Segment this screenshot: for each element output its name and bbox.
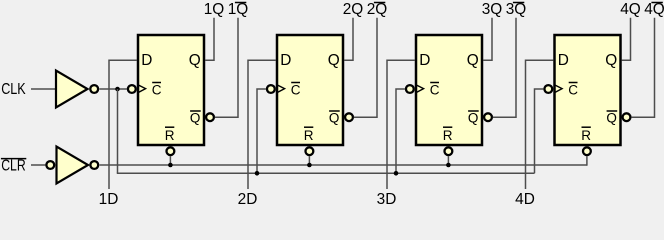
svg-text:3Q: 3Q: [482, 1, 503, 18]
svg-text:R: R: [165, 128, 175, 143]
wire FF1 reset to CLR bus: [169, 156, 171, 166]
FF2 clock edge-trigger symbol: [277, 85, 285, 93]
wire U1 output to FF1 clock: [99, 88, 127, 90]
wire FF2 reset to CLR bus: [308, 156, 310, 166]
D flip-flop FF1 body: [138, 35, 204, 145]
D flip-flop FF2 body: [277, 35, 343, 145]
wire 4D input riser: [526, 60, 554, 189]
inverter U1 (CLK buffer): [56, 71, 98, 108]
wire 3D input riser: [387, 60, 415, 189]
FF4 clock edge-trigger symbol: [554, 85, 562, 93]
svg-text:2Q: 2Q: [367, 1, 388, 18]
svg-text:2D: 2D: [238, 191, 258, 204]
wire FF3 Q-bar output to 3Q-bar: [493, 18, 516, 117]
wire CLK vertical drop: [117, 89, 119, 173]
svg-text:Q: Q: [467, 52, 479, 69]
FF1 clock edge-trigger symbol: [138, 85, 146, 93]
wire FF4 Q output to 4Q: [622, 18, 631, 61]
wire FF2 Q output to 2Q: [344, 18, 353, 61]
junction CLR bus at FF1: [168, 163, 173, 168]
wire FF2 Q-bar output to 2Q-bar: [354, 18, 377, 117]
svg-text:3Q: 3Q: [506, 1, 527, 18]
junction CLK bus at FF3: [394, 171, 399, 176]
junction CLR bus at FF3: [446, 163, 451, 168]
svg-text:1Q: 1Q: [228, 1, 249, 18]
FF2 reset input bubble: [306, 147, 314, 155]
FF3 clock input bubble: [406, 85, 414, 93]
svg-text:Q: Q: [605, 52, 617, 69]
wire CLK riser to FF4: [535, 89, 544, 173]
svg-text:3D: 3D: [377, 191, 397, 204]
wire CLK to inverter U1: [31, 88, 55, 90]
svg-text:Q: Q: [189, 52, 201, 69]
inverter U2 (CLR buffer): [46, 147, 98, 184]
D flip-flop FF4 body: [555, 35, 621, 145]
FF2 clock input bubble: [267, 85, 275, 93]
svg-text:CLK: CLK: [1, 81, 26, 98]
wire FF3 reset to CLR bus: [447, 156, 449, 166]
wire FF3 Q output to 3Q: [483, 18, 492, 61]
svg-text:CLR: CLR: [1, 158, 26, 175]
wire CLK riser to FF3: [396, 89, 405, 173]
junction CLK node: [115, 87, 120, 92]
svg-text:Q: Q: [190, 110, 201, 125]
FF4 clock input bubble: [544, 85, 552, 93]
svg-text:D: D: [558, 52, 569, 69]
svg-text:D: D: [141, 52, 152, 69]
svg-text:1Q: 1Q: [204, 1, 225, 18]
FF3 reset input bubble: [445, 147, 453, 155]
wire CLR to inverter U2: [31, 164, 45, 166]
svg-text:4D: 4D: [515, 191, 535, 204]
FF4 inverted output bubble: [623, 113, 631, 121]
wire FF4 reset to CLR bus: [586, 156, 588, 166]
svg-text:Q: Q: [606, 110, 617, 125]
svg-text:R: R: [304, 128, 314, 143]
svg-text:D: D: [280, 52, 291, 69]
D flip-flop FF3 body: [416, 35, 482, 145]
wire FF1 Q-bar output to 1Q-bar: [215, 18, 238, 117]
svg-text:Q: Q: [468, 110, 479, 125]
svg-text:C: C: [152, 82, 162, 97]
svg-text:C: C: [291, 82, 301, 97]
svg-text:R: R: [581, 128, 591, 143]
FF3 inverted output bubble: [484, 113, 492, 121]
svg-text:Q: Q: [328, 52, 340, 69]
wire FF4 Q-bar output to 4Q-bar: [631, 18, 654, 117]
svg-text:C: C: [568, 82, 578, 97]
svg-text:1D: 1D: [99, 191, 119, 204]
wire CLR distribution bus: [100, 164, 587, 166]
junction CLR bus at FF2: [307, 163, 312, 168]
svg-text:4Q: 4Q: [644, 1, 664, 18]
svg-text:Q: Q: [329, 110, 340, 125]
svg-text:4Q: 4Q: [620, 1, 641, 18]
junction CLK bus at FF2: [255, 171, 260, 176]
svg-text:C: C: [430, 82, 440, 97]
FF1 reset input bubble: [167, 147, 175, 155]
wire 1D input riser: [109, 60, 137, 189]
svg-text:R: R: [443, 128, 453, 143]
FF1 clock input bubble: [128, 85, 136, 93]
FF2 inverted output bubble: [345, 113, 353, 121]
FF1 inverted output bubble: [206, 113, 214, 121]
svg-text:D: D: [419, 52, 430, 69]
FF4 reset input bubble: [583, 147, 591, 155]
wire FF1 Q output to 1Q: [205, 18, 214, 61]
wire CLK riser to FF2: [257, 89, 266, 173]
svg-text:2Q: 2Q: [343, 1, 364, 18]
wire CLK distribution bus: [117, 172, 535, 174]
wire 2D input riser: [248, 60, 276, 189]
FF3 clock edge-trigger symbol: [416, 85, 424, 93]
